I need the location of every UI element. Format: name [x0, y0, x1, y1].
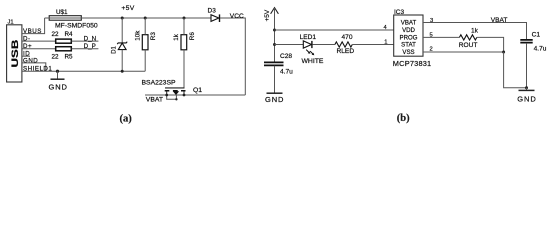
wire C1 bottom to ground [526, 43, 528, 88]
capacitor C28 plates [264, 62, 284, 65]
svg-text:22: 22 [52, 31, 60, 38]
junction dot LED row [273, 43, 276, 46]
LED1 emission arrows [306, 50, 313, 55]
svg-text:MCP73831: MCP73831 [393, 59, 432, 68]
svg-text:1: 1 [384, 39, 387, 45]
svg-text:U$1: U$1 [56, 9, 68, 16]
svg-text:MF-SMDF050: MF-SMDF050 [55, 22, 98, 29]
wire SHIELD1 to R3/D1 bottoms [22, 70, 145, 72]
junction dot ROUT/VSS [502, 51, 505, 54]
resistor R3 body [142, 35, 148, 50]
wire to LED1 [275, 44, 304, 46]
svg-text:470: 470 [342, 34, 353, 41]
ground symbol (a) [57, 71, 59, 79]
resistor ROUT zigzag [459, 35, 476, 40]
svg-text:2: 2 [430, 46, 433, 52]
svg-text:Q1: Q1 [193, 87, 202, 94]
junction dot rail/D1 [121, 17, 124, 20]
wire C28 to ground [274, 66, 276, 93]
+5V rail wire [45, 17, 211, 19]
svg-text:C28: C28 [280, 53, 292, 60]
wire +5V vertical down to C28 [274, 8, 276, 62]
svg-text:PROG: PROG [400, 35, 418, 42]
svg-text:VBAT: VBAT [146, 96, 163, 103]
ground symbol (b) left [267, 92, 283, 94]
svg-text:GND: GND [265, 95, 284, 104]
svg-text:GND: GND [49, 83, 68, 92]
svg-text:22: 22 [52, 53, 60, 60]
svg-text:D_N: D_N [84, 35, 97, 42]
svg-text:1k: 1k [173, 33, 180, 41]
svg-text:VBAT: VBAT [491, 17, 508, 24]
svg-text:VBAT: VBAT [401, 20, 417, 27]
wire R5 to D_P [72, 48, 99, 50]
svg-text:WHITE: WHITE [302, 58, 324, 65]
svg-text:R4: R4 [65, 31, 74, 38]
svg-text:D3: D3 [208, 8, 217, 15]
wire VBUS to fuse [22, 18, 45, 34]
wire R3 top [144, 18, 146, 35]
resistor R4 body [56, 39, 72, 43]
svg-text:VSS: VSS [402, 49, 414, 56]
USB connector J1 box [7, 25, 22, 82]
wire VBAT to Q1 to VCC [145, 94, 245, 96]
op-amp / charger IC3 box [394, 15, 423, 56]
svg-text:RLED: RLED [337, 48, 355, 55]
wire LED1 to RLED [312, 44, 335, 46]
svg-text:ROUT: ROUT [459, 42, 478, 49]
svg-text:R6: R6 [189, 32, 196, 41]
wire PROG pin5 to ROUT [423, 36, 459, 38]
svg-text:+5V: +5V [264, 9, 271, 21]
wire +5V to VDD pin4 [275, 29, 394, 31]
ground symbol (b) right [526, 88, 528, 90]
svg-text:D1: D1 [112, 45, 118, 53]
wire R6 top [183, 18, 185, 35]
junction dot D1 bottom [121, 70, 124, 73]
svg-text:4.7u: 4.7u [280, 68, 293, 75]
resistor R6 body [181, 35, 187, 50]
svg-text:C1: C1 [532, 32, 541, 39]
svg-text:GND: GND [517, 94, 536, 103]
wire R4 to D_N [72, 40, 99, 42]
junction dot rail/R6 [183, 17, 186, 20]
svg-text:USB: USB [11, 40, 20, 68]
svg-text:R3: R3 [150, 32, 157, 41]
svg-text:VCC: VCC [230, 13, 244, 20]
wire RLED to STAT pin1 [352, 44, 393, 46]
wire GND pin down to shield net [22, 63, 46, 71]
svg-text:D_P: D_P [84, 43, 96, 50]
svg-text:VDD: VDD [402, 27, 415, 34]
IC3 pin names [400, 20, 418, 57]
+5V supply arrow [271, 8, 279, 14]
svg-text:+5V: +5V [121, 5, 134, 12]
wire VBAT pin3 to C1 [423, 23, 527, 41]
wire D- to R4 [22, 40, 56, 42]
wire ROUT down to VSS net [477, 37, 504, 52]
fuse U$1 body [49, 16, 81, 21]
wire R3 bottom [144, 50, 146, 71]
diode D3 [211, 15, 219, 22]
resistor R5 body [56, 47, 72, 51]
svg-text:1k: 1k [471, 28, 479, 35]
svg-text:BSA223SP: BSA223SP [142, 80, 176, 87]
svg-text:10k: 10k [135, 30, 142, 41]
junction dot VDD [273, 29, 276, 32]
svg-text:4.7u: 4.7u [534, 46, 547, 53]
wire D+ to R5 [22, 48, 56, 50]
wire R6 bottom to Q1 gate [183, 50, 185, 88]
pin ID stub [22, 55, 30, 57]
svg-text:(a): (a) [120, 114, 133, 125]
wire D3 to VCC corner [220, 18, 245, 95]
svg-text:3: 3 [430, 18, 433, 24]
diode D1 [121, 18, 123, 43]
svg-text:R5: R5 [65, 53, 74, 60]
junction dot rail/R3 [144, 17, 147, 20]
svg-text:LED1: LED1 [300, 34, 317, 41]
resistor RLED zigzag [335, 42, 352, 47]
wire VSS pin2 [423, 51, 504, 53]
svg-text:STAT: STAT [401, 42, 416, 49]
transistor Q1 body [165, 88, 186, 101]
LED1 diode [303, 41, 311, 48]
svg-text:(b): (b) [397, 113, 410, 124]
svg-text:5: 5 [430, 33, 433, 39]
junction dot C1/gnd [525, 86, 528, 89]
junction dot shield/gnd [56, 70, 59, 73]
wire VSS down to ground [504, 52, 527, 88]
capacitor C1 plates [520, 40, 532, 43]
